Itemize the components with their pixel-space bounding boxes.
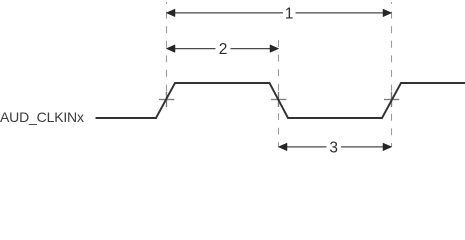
svg-text:2: 2 (219, 41, 228, 58)
svg-text:AUD_CLKINx: AUD_CLKINx (0, 109, 84, 125)
svg-text:3: 3 (329, 140, 338, 157)
svg-text:1: 1 (285, 5, 294, 22)
